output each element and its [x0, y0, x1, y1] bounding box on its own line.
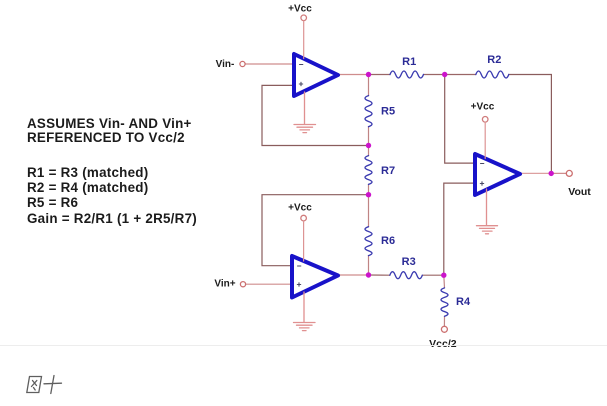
terminal Vin-	[216, 59, 245, 70]
wire U1 output to node A column	[338, 74, 369, 76]
svg-text:R7: R7	[381, 165, 395, 177]
power +Vcc U1 (terminal and stub)	[288, 4, 312, 59]
terminal Vin+	[214, 278, 245, 289]
wire U2 output to node	[338, 274, 369, 276]
wire R2 to output node (feedback)	[509, 75, 552, 174]
op-amp U3	[475, 154, 520, 195]
note: assumptions text block	[27, 117, 192, 146]
svg-text:R1: R1	[402, 56, 416, 68]
ground U1	[294, 92, 316, 133]
junction node: U2 out / R6 / R3	[366, 272, 371, 277]
svg-text:Vout: Vout	[568, 186, 591, 198]
wire U3 output to Vout node	[520, 172, 551, 174]
wire U2 feedback loop	[262, 195, 369, 266]
resistor R6	[365, 195, 395, 275]
power +Vcc U3 (terminal and stub)	[471, 102, 495, 159]
op-amp U1	[294, 54, 338, 96]
svg-text:R3: R3	[402, 256, 416, 268]
wire node A down to U3 inverting input	[445, 75, 475, 164]
terminal Vout	[566, 170, 591, 198]
resistor R5	[365, 75, 395, 146]
junction node: Vout	[549, 171, 554, 176]
junction node: U1 out / R1 / R5	[366, 72, 371, 77]
junction node A: R1 / R2 / U3 in-	[442, 72, 447, 77]
junction node: R5 / R7 / U1 feedback	[366, 143, 371, 148]
wire Vin- input to U1	[245, 63, 294, 65]
ground U3	[477, 189, 498, 234]
svg-text:R5: R5	[381, 106, 395, 118]
resistor R7	[365, 146, 395, 195]
junction node B: R3 / R4 / U3 in+	[441, 273, 446, 278]
svg-text:Vin-: Vin-	[216, 59, 235, 70]
svg-text:R4: R4	[456, 296, 471, 308]
svg-text:Vin+: Vin+	[214, 278, 235, 289]
resistor R3	[369, 256, 444, 279]
wire Vin+ input to U2	[246, 283, 293, 285]
terminal Vcc/2	[429, 326, 457, 350]
junction node: R7 / R6 / U2 feedback	[366, 192, 371, 197]
svg-text:+Vcc: +Vcc	[471, 102, 495, 113]
caption: figure-ten glyphs	[27, 376, 62, 394]
power +Vcc U2 (terminal and stub)	[288, 203, 312, 261]
note: resistor relations text block	[27, 165, 197, 226]
wire U1 feedback loop	[262, 85, 369, 145]
ground U2	[294, 292, 316, 331]
resistor R4	[441, 275, 471, 326]
svg-text:R6: R6	[381, 235, 395, 247]
resistor R2	[445, 54, 509, 78]
wire Vout node to terminal	[551, 172, 566, 174]
svg-text:+Vcc: +Vcc	[288, 4, 312, 15]
op-amp U2	[292, 256, 338, 298]
resistor R1	[369, 56, 445, 78]
svg-text:+Vcc: +Vcc	[288, 203, 312, 214]
svg-text:R2: R2	[487, 54, 501, 66]
separator line	[0, 345, 607, 346]
wire node B up to U3 non-inverting input	[444, 183, 475, 275]
